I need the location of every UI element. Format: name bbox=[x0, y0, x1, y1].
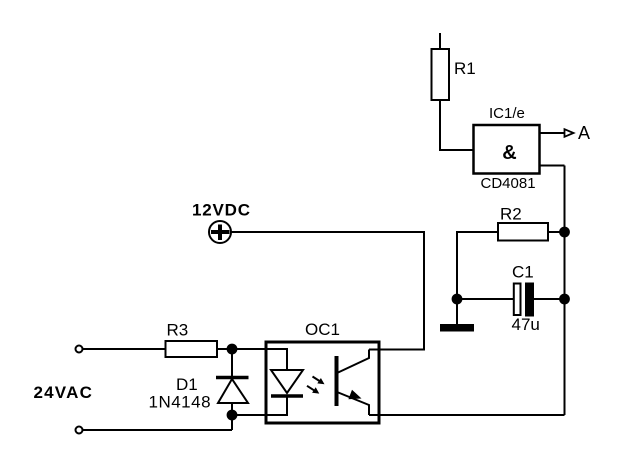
ground bbox=[440, 324, 474, 332]
junction R3-D1 bbox=[228, 345, 237, 354]
wire R1 bottom to gate input bbox=[440, 100, 474, 150]
optocoupler OC1 box bbox=[266, 342, 379, 423]
wire top terminal to R3 bbox=[83, 348, 166, 350]
transistor emitter bbox=[337, 392, 369, 415]
wire R3 to OC1 bbox=[217, 348, 266, 350]
wire R2 right bbox=[548, 231, 565, 233]
junction D1 bottom bbox=[228, 411, 237, 420]
wire D1 top bbox=[231, 349, 233, 376]
terminal top 24VAC bbox=[76, 346, 83, 353]
transistor collector bbox=[337, 350, 369, 374]
svg-text:IC1/e: IC1/e bbox=[489, 105, 525, 122]
svg-text:R2: R2 bbox=[500, 205, 522, 224]
svg-text:C1: C1 bbox=[512, 263, 534, 282]
svg-text:R3: R3 bbox=[167, 321, 189, 340]
wire D1 junction to OC1 cathode bbox=[232, 396, 287, 415]
transistor emitter arrowhead bbox=[348, 390, 361, 399]
op-amp U1 gate box IC1/e bbox=[474, 125, 540, 174]
svg-text:CD4081: CD4081 bbox=[481, 175, 536, 192]
wire gate output bbox=[540, 132, 565, 134]
junction C1-bus bbox=[560, 295, 569, 304]
svg-text:1N4148: 1N4148 bbox=[149, 393, 212, 412]
terminal bottom 24VAC bbox=[76, 427, 83, 434]
svg-text:OC1: OC1 bbox=[305, 320, 340, 339]
LED cathode bar bbox=[271, 394, 303, 398]
resistor R3 bbox=[166, 341, 218, 357]
capacitor C1 bbox=[514, 284, 521, 316]
svg-text:12VDC: 12VDC bbox=[192, 201, 251, 220]
wire R1 top stub bbox=[439, 33, 441, 49]
wire OC1 anode internal bbox=[266, 349, 287, 370]
LED triangle inside OC1 bbox=[271, 370, 303, 393]
svg-text:&: & bbox=[502, 142, 516, 164]
node A output arrow bbox=[565, 129, 574, 137]
svg-text:R1: R1 bbox=[454, 59, 476, 78]
resistor R2 bbox=[498, 223, 548, 241]
wire D1 bottom bbox=[231, 403, 233, 430]
wire emitter to bus bbox=[369, 414, 565, 416]
diode D1 cathode bar bbox=[216, 376, 249, 380]
transistor Q1 base bar bbox=[335, 356, 339, 406]
resistor R1 bbox=[432, 49, 450, 100]
wire right vertical bus bbox=[564, 166, 566, 416]
svg-text:A: A bbox=[578, 123, 590, 143]
junction ground-C1 bbox=[453, 295, 462, 304]
wire C1 left bbox=[457, 298, 514, 300]
light arrow 2 bbox=[307, 386, 314, 391]
junction R2-bus bbox=[560, 228, 569, 237]
svg-text:24VAC: 24VAC bbox=[34, 383, 94, 402]
diode D1 triangle bbox=[218, 379, 248, 403]
wire R2 left bbox=[457, 232, 498, 299]
wire bottom terminal bbox=[83, 429, 233, 431]
svg-text:D1: D1 bbox=[176, 375, 198, 394]
wire gate pin2 bbox=[540, 165, 565, 167]
wire ground stub bbox=[456, 299, 458, 324]
svg-text:47u: 47u bbox=[512, 315, 540, 334]
power 12VDC symbol bbox=[209, 221, 231, 243]
wire C1 right bbox=[533, 298, 565, 300]
wire 12VDC to collector bbox=[231, 232, 424, 350]
light arrow 1 bbox=[313, 377, 320, 382]
